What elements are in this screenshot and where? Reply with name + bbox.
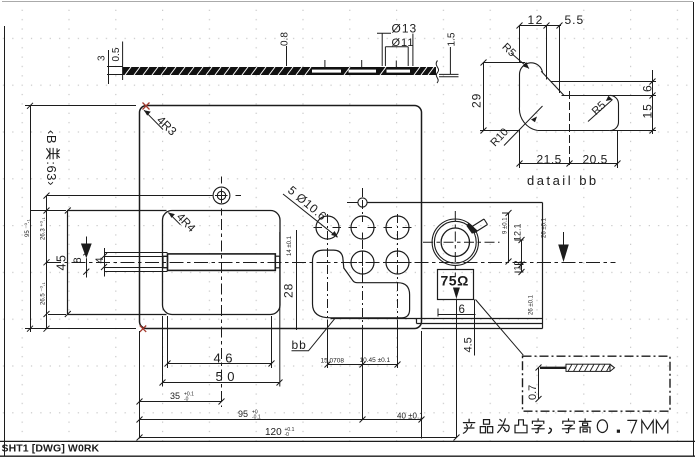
detail label R5 right [588, 96, 613, 122]
svg-text:10.45 ±0.1: 10.45 ±0.1 [360, 357, 391, 364]
svg-text:3: 3 [97, 55, 108, 61]
left shield rectangle [68, 211, 167, 315]
right side dims [502, 210, 525, 275]
svg-text:0.7: 0.7 [527, 385, 539, 400]
step line above flange bottom [331, 318, 543, 320]
ext hole columns [328, 320, 398, 420]
svg-text:-0: -0 [285, 432, 290, 438]
label 4R3 [144, 110, 180, 138]
svg-text:0.8: 0.8 [280, 32, 291, 46]
svg-text:45: 45 [55, 254, 69, 271]
glyph wei [498, 419, 509, 433]
detail chamfer diagonal [541, 71, 564, 95]
dim line 46 [168, 363, 272, 365]
75 ohm label box [438, 270, 474, 300]
raised text bar solid segment [540, 367, 566, 369]
svg-text:75Ω: 75Ω [441, 273, 469, 289]
dim 6 bracket under 75ohm [438, 309, 476, 317]
svg-text:12: 12 [528, 13, 544, 27]
detail arm bottom edge [562, 95, 653, 97]
crystal body rect [168, 254, 276, 271]
slot openings in section [312, 70, 341, 73]
detail arm top edge [551, 81, 653, 83]
extension line y=210.5 left [31, 210, 67, 212]
small circle on boss [358, 198, 367, 207]
svg-text:12.1: 12.1 [513, 223, 523, 241]
main horizontal centerline [47, 262, 616, 264]
dim 1.5 extension lines [439, 74, 459, 76]
svg-text:‹B: ‹B [44, 130, 59, 144]
flange right edge [542, 203, 544, 329]
lead lower pair [105, 268, 168, 272]
glyph zi second [562, 419, 574, 433]
detail label R5 top [499, 41, 529, 68]
dim line 50 [163, 382, 280, 384]
page border right [693, 2, 695, 456]
svg-text:20.5: 20.5 [583, 153, 608, 167]
big connector outer ring [432, 219, 478, 265]
glyph gao [579, 419, 591, 433]
svg-text:26.3 ⁺⁰.₁: 26.3 ⁺⁰.₁ [40, 217, 47, 240]
crystal end cap right [275, 256, 280, 268]
svg-text:0.5: 0.5 [111, 47, 122, 61]
section arrow right on centerline [558, 232, 569, 262]
ext lines from body corners down [140, 331, 422, 439]
title bar line [0, 440, 695, 442]
svg-text:Ø13: Ø13 [392, 22, 418, 36]
letter M [642, 420, 653, 433]
page border top [2, 1, 693, 3]
svg-text:bb: bb [292, 338, 307, 352]
vertical centerline through crosshair hole [221, 219, 223, 407]
svg-text:40 ±0.1: 40 ±0.1 [397, 412, 424, 421]
main body rounded rectangle [140, 106, 422, 329]
svg-text:6: 6 [459, 304, 465, 316]
dim line 95/40 bottom [140, 419, 422, 421]
crystal end cap left [163, 256, 168, 268]
left step lines of plate [107, 67, 123, 75]
svg-text:29: 29 [470, 93, 484, 108]
oblique ticks detail dims [481, 23, 656, 167]
hole center ticks on section [325, 60, 396, 68]
flange bottom edge [417, 319, 543, 324]
svg-text:26 ±0.1: 26 ±0.1 [529, 294, 535, 315]
detail right bump [610, 95, 619, 130]
body bottom edge extension under flange [422, 328, 543, 330]
dim 9 line [508, 213, 510, 262]
dim 28 line [296, 230, 298, 330]
dim line hole pitch [328, 364, 398, 366]
detail label R10 [488, 106, 542, 149]
lead upper pair [105, 253, 168, 257]
svg-text:4.5: 4.5 [463, 337, 475, 352]
svg-text:14 ±0.1: 14 ±0.1 [287, 235, 293, 256]
connector tab stub [467, 219, 488, 234]
B-class vertical note [44, 130, 60, 186]
CJK lei glyph strokes [46, 148, 59, 159]
svg-text:26.5 ⁻⁰.₁: 26.5 ⁻⁰.₁ [40, 282, 47, 305]
svg-text:12: 12 [513, 260, 523, 270]
svg-text:15: 15 [641, 103, 655, 118]
svg-text:21.5: 21.5 [537, 153, 562, 167]
bottom ticks [137, 361, 460, 441]
vertical centerlines of hole columns [328, 188, 398, 330]
label bb with leader [292, 318, 336, 352]
extension line x=280.3 crystal end [279, 232, 281, 387]
dim line 120 [140, 437, 457, 439]
svg-text:6: 6 [641, 85, 655, 92]
glyph zi [532, 419, 544, 433]
svg-text:SHT1 [DWG] W0RK: SHT1 [DWG] W0RK [2, 443, 100, 455]
pocket outline [313, 250, 410, 318]
svg-text:datail bb: datail bb [527, 173, 599, 188]
leader to detail box [476, 300, 524, 356]
raised text bar hatched segment [566, 364, 615, 371]
detail left dim 29 [480, 63, 525, 131]
extension top left [25, 105, 136, 107]
svg-text:95: 95 [238, 409, 248, 419]
label 5 dia 10.6 [283, 183, 338, 237]
hole center cross dashes [314, 216, 412, 274]
left dim 26.3/26.5 vertical line [46, 196, 48, 329]
svg-text:15.0708: 15.0708 [321, 358, 345, 365]
dim 1.5 line [449, 47, 451, 74]
dim 28 ticks [294, 247, 300, 321]
extension bottom left [25, 328, 136, 330]
crosshair hole [213, 187, 230, 204]
svg-text:120: 120 [265, 427, 282, 438]
plate right break line [436, 61, 438, 84]
ext 50 [162, 316, 164, 387]
letter M second [656, 420, 667, 433]
leader line from 75 ohm arrow down [456, 299, 458, 438]
svg-text:Ø11: Ø11 [392, 37, 415, 49]
dim 8 ticks [83, 249, 89, 274]
svg-text:9 ±0.1: 9 ±0.1 [503, 217, 509, 234]
crosshair centerlines [47, 177, 242, 216]
dia11 dim bracket [385, 47, 408, 66]
detail right dim lines 6 and 15 [611, 70, 656, 134]
dim 0.5 extension line [122, 42, 124, 81]
dim 0.7 line [538, 368, 540, 400]
svg-text:4: 4 [94, 257, 106, 263]
detail bottom edge [538, 130, 610, 132]
dash left of small circle [347, 202, 358, 204]
detail centerline [569, 91, 571, 168]
letter O of 0.7 [597, 420, 607, 433]
left dim 95 vertical line [30, 106, 32, 333]
boss top edge [367, 202, 543, 204]
svg-text:35: 35 [170, 391, 180, 401]
corner marker red x top [143, 103, 150, 110]
label 4R4 [168, 211, 197, 235]
extension line y=314 left [48, 314, 66, 316]
svg-text:8: 8 [72, 257, 84, 263]
detail R10 corner arc [519, 107, 537, 131]
dim 4.5 line [474, 300, 476, 356]
ticks right [506, 210, 525, 275]
svg-text:1.5: 1.5 [447, 32, 458, 46]
dim line 35 [140, 401, 222, 403]
corner marker red x bottom [140, 326, 146, 332]
dash-dot detail box [523, 356, 671, 411]
connector center dashes [423, 211, 500, 277]
bottom dims [137, 316, 460, 441]
five holes dia 10.6 [316, 216, 409, 274]
dim 12.1/12 line [521, 240, 523, 272]
svg-text::63›: :63› [44, 161, 59, 186]
svg-text:95 ⁻⁰.₁: 95 ⁻⁰.₁ [24, 219, 31, 237]
dim 4 line [104, 248, 106, 277]
detail top dim line [520, 26, 562, 94]
detail bottom dim line [520, 131, 618, 169]
datum arrow left [81, 237, 92, 278]
dim 4 ticks [101, 253, 107, 270]
page border bottom [0, 455, 695, 457]
svg-text:-0.1: -0.1 [252, 415, 261, 421]
page border left [4, 26, 6, 456]
dia13 dim bracket [377, 33, 413, 66]
dim 3 extension line [108, 50, 110, 84]
ext from inner rect corners [168, 316, 272, 368]
ticks left dims [27, 103, 50, 332]
inner rounded rectangle [163, 211, 281, 315]
svg-text:50: 50 [216, 369, 239, 384]
section plate hatched band [123, 67, 436, 75]
svg-text:-0: -0 [184, 397, 189, 403]
svg-text:46: 46 [214, 351, 237, 366]
svg-text:5.5: 5.5 [565, 13, 585, 27]
detail profile left edge and top R5 arc [520, 63, 543, 107]
svg-text:28: 28 [282, 283, 296, 298]
digit 7 [628, 420, 637, 433]
dim 45 ticks [65, 208, 71, 318]
glyph pin [480, 420, 492, 433]
decimal point [617, 430, 620, 433]
arrow under 75 ohm [453, 288, 460, 438]
glyph tu (convex) [515, 420, 527, 433]
svg-text:26 ±0.1: 26 ±0.1 [542, 217, 548, 238]
glyph chan [463, 419, 474, 433]
fullwidth comma [549, 428, 552, 433]
dim 0.8 extension line [286, 46, 288, 66]
